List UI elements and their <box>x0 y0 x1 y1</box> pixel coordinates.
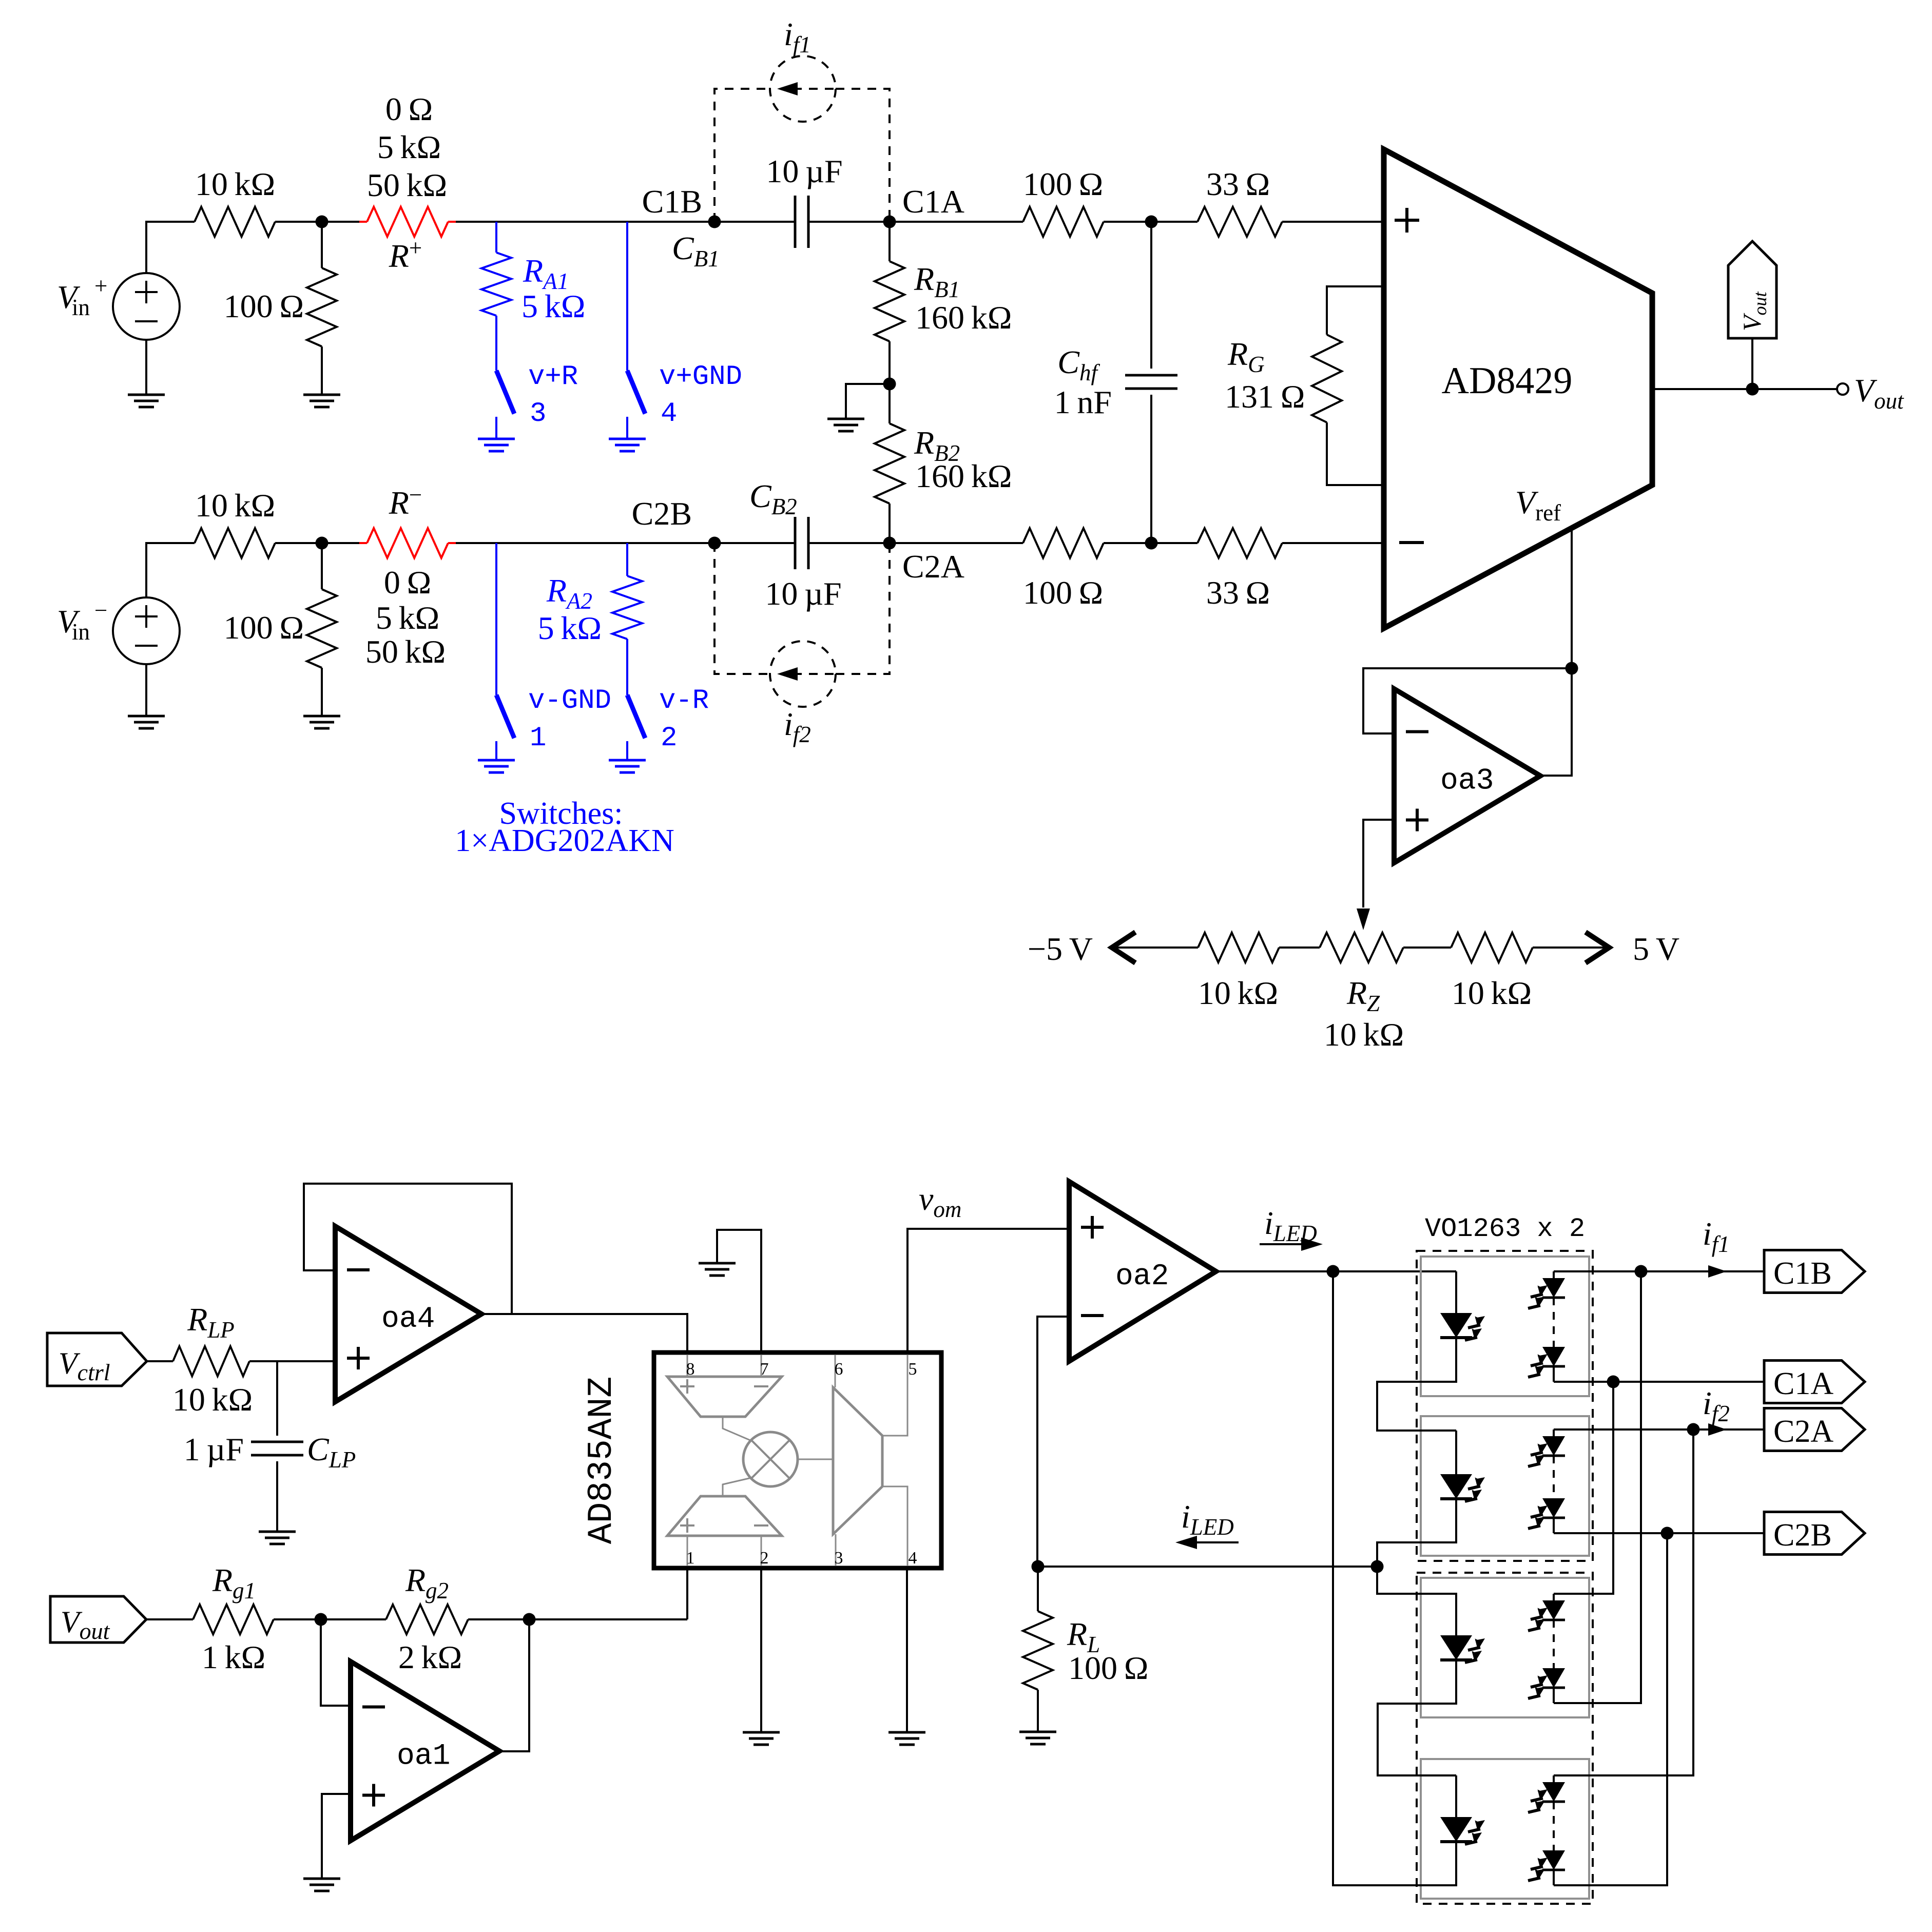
wire <box>626 417 628 439</box>
AD8429 + input <box>1395 208 1419 233</box>
ground <box>128 395 165 407</box>
svg-text:C2A: C2A <box>1773 1414 1833 1449</box>
flag C2A <box>1764 1408 1865 1451</box>
svg-text:5 V: 5 V <box>1633 931 1679 967</box>
svg-text:1×ADG202AKN: 1×ADG202AKN <box>455 823 674 858</box>
svg-text:2: 2 <box>760 1549 769 1568</box>
svg-text:oa3: oa3 <box>1440 765 1494 798</box>
flag C1A <box>1764 1361 1865 1403</box>
svg-text:−5 V: −5 V <box>1028 931 1093 967</box>
svg-text:1: 1 <box>530 723 546 754</box>
switch 2 blade <box>627 695 645 738</box>
arrow iLED return <box>1196 1541 1239 1543</box>
node Chf bottom <box>1145 537 1158 550</box>
node C2A <box>883 537 896 550</box>
ground <box>128 716 165 728</box>
op-amp oa2 <box>1069 1182 1216 1361</box>
svg-text:33 Ω: 33 Ω <box>1206 166 1270 202</box>
wire pin2 <box>760 1568 762 1732</box>
svg-text:C1B: C1B <box>1773 1256 1832 1291</box>
dashed wire if2 left <box>714 543 770 674</box>
wire <box>1104 221 1197 223</box>
flag C2B <box>1764 1512 1865 1555</box>
capacitor CB2 <box>795 517 808 569</box>
svg-text:10 kΩ: 10 kΩ <box>1452 975 1532 1011</box>
resistor RLP <box>173 1346 249 1376</box>
svg-text:AD8429: AD8429 <box>1442 360 1573 402</box>
wire <box>322 221 359 223</box>
wire <box>1150 222 1152 369</box>
svg-text:2 kΩ: 2 kΩ <box>398 1639 462 1675</box>
node oa3 feedback <box>1566 662 1578 675</box>
LED 2 and chain wire <box>1440 1474 1472 1499</box>
node Chf top <box>1145 216 1158 228</box>
wire <box>468 1618 687 1620</box>
svg-text:1: 1 <box>686 1549 695 1568</box>
flag Vctrl <box>47 1333 147 1386</box>
wire oa1 output <box>499 1619 529 1751</box>
resistor 10k right <box>1451 933 1533 962</box>
LED 3 and chain wire <box>1377 1567 1456 1635</box>
ground pin4 <box>888 1732 925 1745</box>
svg-text:4: 4 <box>909 1549 917 1568</box>
svg-text:C1B: C1B <box>642 183 702 220</box>
svg-text:160 kΩ: 160 kΩ <box>915 458 1012 494</box>
wire <box>890 221 1023 223</box>
svg-text:AD835ANZ: AD835ANZ <box>582 1377 622 1544</box>
svg-text:C2A: C2A <box>902 548 964 585</box>
wire <box>275 221 322 223</box>
svg-text:100 Ω: 100 Ω <box>224 609 304 646</box>
svg-text:4: 4 <box>661 398 677 430</box>
AD835 out stage <box>833 1387 882 1534</box>
node C1A net <box>1607 1376 1620 1388</box>
svg-text:5 kΩ: 5 kΩ <box>376 600 439 636</box>
if1 arrow <box>793 88 836 90</box>
svg-text:10 µF: 10 µF <box>765 575 841 612</box>
flag Vout <box>1728 241 1776 338</box>
node C2B <box>708 537 721 550</box>
svg-text:1 kΩ: 1 kΩ <box>202 1639 265 1675</box>
svg-text:1 nF: 1 nF <box>1054 384 1112 420</box>
wire oa2 output <box>1216 1270 1456 1272</box>
wire <box>276 1461 278 1532</box>
wire RL to LEDs <box>1038 1566 1377 1568</box>
voltage source V+in <box>113 273 180 340</box>
ground switch 4 <box>609 439 646 451</box>
wire <box>495 417 497 439</box>
svg-text:v+GND: v+GND <box>659 361 742 393</box>
wire <box>1403 946 1451 949</box>
ground switch 3 <box>478 439 515 451</box>
svg-text:v-GND: v-GND <box>528 685 611 717</box>
photodiodes opto 3 <box>1553 1594 1555 1600</box>
wire <box>714 221 796 223</box>
svg-text:33 Ω: 33 Ω <box>1206 574 1270 611</box>
node LED drive <box>1327 1265 1340 1278</box>
wire to ground <box>846 384 890 419</box>
svg-text:5: 5 <box>909 1360 917 1379</box>
svg-text:VO1263 x 2: VO1263 x 2 <box>1425 1214 1585 1244</box>
node C1B <box>708 216 721 228</box>
wire pin1 <box>686 1568 688 1619</box>
resistor Rg2 <box>386 1605 468 1634</box>
LED 1 and chain wire <box>1455 1271 1457 1313</box>
svg-text:10 kΩ: 10 kΩ <box>195 166 275 202</box>
wire <box>147 1360 173 1362</box>
resistor Rg1 <box>193 1605 274 1634</box>
arrow if2 <box>1708 1423 1727 1436</box>
wire <box>1282 542 1384 544</box>
svg-text:3: 3 <box>835 1549 843 1568</box>
wire <box>456 542 714 544</box>
bus C1A to opto3 <box>1554 1382 1613 1594</box>
resistor 100 top <box>321 222 323 268</box>
capacitor Chf <box>1125 375 1177 389</box>
AD835 Y amp <box>667 1496 782 1536</box>
node C2A net <box>1687 1423 1700 1436</box>
wire <box>146 1618 193 1620</box>
wire vom <box>907 1229 1069 1353</box>
svg-text:2: 2 <box>661 723 677 754</box>
wire oa3 feedback <box>1363 668 1572 733</box>
svg-text:C1A: C1A <box>902 183 964 220</box>
wire oa2 - feedback <box>1037 1317 1069 1567</box>
resistor RG <box>1327 286 1384 335</box>
wire output <box>1652 388 1837 390</box>
current source if2 circle <box>770 641 836 707</box>
node C1B net <box>1635 1265 1648 1278</box>
wire oa4 output to pin8 <box>481 1314 687 1353</box>
wire pin4 <box>906 1568 908 1732</box>
node bottom divider <box>316 537 329 550</box>
op-amp oa4 <box>335 1226 481 1402</box>
svg-text:in: in <box>72 619 90 645</box>
ground CLP <box>259 1532 296 1544</box>
resistor 10k top input <box>195 207 275 237</box>
ground <box>303 395 340 407</box>
svg-text:oa1: oa1 <box>397 1740 450 1773</box>
if2 arrow <box>793 673 836 675</box>
node RB mid <box>883 378 896 391</box>
svg-text:1 µF: 1 µF <box>184 1431 244 1467</box>
svg-text:0 Ω: 0 Ω <box>385 91 433 127</box>
dashed wire if1 left <box>714 89 770 222</box>
svg-text:7: 7 <box>760 1360 769 1379</box>
photodiodes opto 2 <box>1553 1429 1555 1436</box>
bus C1B to opto3 <box>1554 1271 1641 1703</box>
node Vout <box>1746 383 1759 396</box>
wire oa3 + to wiper <box>1363 820 1394 907</box>
svg-text:100 Ω: 100 Ω <box>224 288 304 324</box>
wire <box>890 542 1023 544</box>
dashed wire if2 right <box>836 543 890 674</box>
wire <box>1150 395 1152 543</box>
wire C1B net <box>1554 1270 1764 1272</box>
svg-text:C2B: C2B <box>632 495 692 532</box>
svg-text:v-R: v-R <box>659 685 709 717</box>
svg-text:3: 3 <box>530 398 546 430</box>
wire Vref <box>1571 528 1573 668</box>
ground pin2 <box>743 1732 780 1745</box>
svg-text:C1A: C1A <box>1773 1366 1833 1401</box>
flag C1B <box>1764 1250 1865 1293</box>
wire <box>626 741 628 760</box>
resistor RB2 <box>888 384 891 423</box>
wire <box>1104 542 1197 544</box>
photodiodes opto 1 <box>1553 1271 1555 1278</box>
resistor RA1 (blue) <box>495 222 497 253</box>
AD8429 - input <box>1399 541 1424 544</box>
arrow iLED <box>1260 1243 1302 1245</box>
ground pin7 <box>699 1263 736 1276</box>
resistor 33 top <box>1197 207 1282 237</box>
svg-text:10 kΩ: 10 kΩ <box>172 1381 253 1418</box>
wire oa1 + to ground <box>322 1794 351 1879</box>
photodiodes opto 4 <box>1553 1775 1555 1782</box>
wire C2B net <box>1554 1532 1764 1534</box>
svg-text:0 Ω: 0 Ω <box>384 564 431 601</box>
wire <box>808 221 890 223</box>
resistor 100 mid bottom <box>1023 528 1104 558</box>
potentiometer RZ <box>1320 933 1403 962</box>
wire <box>808 542 890 544</box>
svg-text:+: + <box>94 273 107 299</box>
node Rg <box>315 1613 327 1626</box>
wire pin7 to ground <box>717 1230 761 1353</box>
resistor 10k left <box>1198 933 1279 962</box>
flag Vout input <box>50 1596 146 1643</box>
node top divider <box>316 216 329 228</box>
opto 1 box <box>1421 1257 1589 1396</box>
wire -5V arrow <box>1112 946 1198 949</box>
op-amp oa1 <box>351 1661 499 1841</box>
wire <box>146 222 195 273</box>
resistor 10k bottom input <box>195 528 275 558</box>
opto 3 box <box>1421 1578 1589 1717</box>
switch 4 blade <box>627 371 645 414</box>
wire C1A net <box>1554 1381 1764 1383</box>
wire <box>145 664 147 716</box>
bus C2B to opto4 <box>1554 1533 1667 1885</box>
wire oa3 output <box>1540 668 1572 776</box>
wire switch 4 <box>626 222 628 371</box>
AD835 X amp <box>667 1377 782 1417</box>
wire oa1 - <box>321 1619 351 1706</box>
svg-text:10 µF: 10 µF <box>766 153 842 189</box>
svg-text:100 Ω: 100 Ω <box>1023 166 1103 202</box>
node oa1 out <box>523 1613 536 1626</box>
ground RB mid <box>827 419 864 431</box>
wire <box>495 741 497 760</box>
svg-text:v+R: v+R <box>528 361 578 393</box>
switch 1 blade <box>496 695 514 738</box>
wire C2A net <box>1554 1428 1764 1431</box>
dashed wire if1 right <box>836 89 890 222</box>
resistor R+ (red) <box>359 221 367 223</box>
terminal Vout <box>1837 383 1848 395</box>
in-amp AD8429 body <box>1384 149 1652 628</box>
svg-text:10 kΩ: 10 kΩ <box>1198 975 1278 1011</box>
opto 4 box <box>1421 1759 1589 1899</box>
current source if1 circle <box>770 56 836 122</box>
svg-text:131 Ω: 131 Ω <box>1225 378 1305 415</box>
resistor RA2 (blue) <box>626 543 628 576</box>
svg-text:8: 8 <box>686 1360 695 1379</box>
node LED mid <box>1371 1560 1384 1573</box>
svg-text:5 kΩ: 5 kΩ <box>377 129 441 165</box>
wire <box>249 1360 335 1362</box>
svg-text:160 kΩ: 160 kΩ <box>915 299 1012 336</box>
wire switch 1 <box>495 543 497 695</box>
arrow if1 <box>1708 1265 1727 1278</box>
wire <box>274 1618 386 1620</box>
ground RL <box>1019 1732 1056 1744</box>
svg-text:100 Ω: 100 Ω <box>1023 574 1103 611</box>
svg-text:10 kΩ: 10 kΩ <box>195 487 275 524</box>
op-amp oa3 <box>1394 689 1540 863</box>
AD835 multiplier <box>743 1432 798 1486</box>
resistor RB1 <box>888 222 891 261</box>
resistor 100 bottom <box>321 543 323 589</box>
capacitor CB1 <box>795 196 808 248</box>
wire <box>145 340 147 395</box>
svg-text:oa4: oa4 <box>381 1303 435 1336</box>
AD835 internal wires <box>687 1355 688 1377</box>
opto 2 box <box>1421 1416 1589 1556</box>
ground <box>303 716 340 728</box>
svg-text:5 kΩ: 5 kΩ <box>538 610 602 646</box>
IC AD835 body <box>654 1353 941 1568</box>
bus C2A to opto4 <box>1554 1429 1693 1775</box>
wire <box>714 542 796 544</box>
svg-text:10 kΩ: 10 kΩ <box>1324 1016 1404 1053</box>
capacitor CLP <box>251 1442 303 1455</box>
svg-text:6: 6 <box>835 1360 843 1379</box>
resistor RL <box>1037 1567 1039 1611</box>
wire <box>146 543 195 597</box>
svg-text:100 Ω: 100 Ω <box>1068 1650 1148 1686</box>
svg-text:C2B: C2B <box>1773 1518 1832 1553</box>
svg-text:5 kΩ: 5 kΩ <box>521 288 585 324</box>
ground oa1 <box>303 1879 340 1891</box>
LED 4 and return wire <box>1440 1817 1472 1842</box>
wire <box>276 1361 278 1436</box>
node C1A <box>883 216 896 228</box>
optocoupler module 2 dashed box <box>1417 1573 1593 1904</box>
wire 5V arrow <box>1533 946 1609 949</box>
svg-text:−: − <box>94 597 107 623</box>
svg-text:50 kΩ: 50 kΩ <box>365 633 446 670</box>
voltage source V-in <box>113 597 180 664</box>
svg-text:50 kΩ: 50 kΩ <box>367 167 447 203</box>
wire <box>456 221 714 223</box>
node C2B net <box>1661 1527 1674 1540</box>
switch 3 blade <box>496 371 514 414</box>
optocoupler module 1 dashed box <box>1417 1251 1593 1561</box>
resistor 33 bottom <box>1197 528 1282 558</box>
svg-text:in: in <box>72 295 90 320</box>
wire <box>1282 221 1384 223</box>
ground switch 2 <box>609 760 646 772</box>
resistor 100 mid top <box>1023 207 1104 237</box>
wire <box>322 542 359 544</box>
wire <box>1279 946 1320 949</box>
ground switch 1 <box>478 760 515 772</box>
wire <box>275 542 322 544</box>
wire oa4 feedback <box>304 1184 512 1314</box>
node RL <box>1032 1560 1045 1573</box>
svg-text:oa2: oa2 <box>1115 1260 1169 1293</box>
resistor R- (red) <box>359 542 367 544</box>
